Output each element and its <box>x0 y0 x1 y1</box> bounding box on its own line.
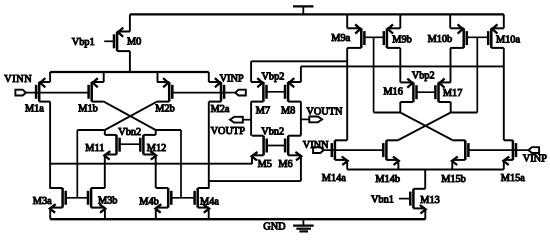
svg-text:VINN: VINN <box>4 74 32 85</box>
svg-text:VINP: VINP <box>523 154 547 165</box>
svg-text:M13: M13 <box>420 195 439 206</box>
svg-text:VINP: VINP <box>220 73 244 84</box>
svg-text:M0: M0 <box>127 37 141 48</box>
svg-text:M2b: M2b <box>155 104 174 115</box>
svg-text:Vbn1: Vbn1 <box>371 195 394 206</box>
svg-text:M4a: M4a <box>200 197 219 208</box>
svg-text:M10b: M10b <box>428 34 453 45</box>
svg-text:M11: M11 <box>85 143 104 154</box>
svg-text:M3a: M3a <box>33 196 52 207</box>
svg-text:M14a: M14a <box>322 173 346 184</box>
svg-text:VOUTN: VOUTN <box>306 107 343 118</box>
svg-text:M10a: M10a <box>496 34 520 45</box>
svg-text:M9a: M9a <box>331 33 350 44</box>
svg-text:M6: M6 <box>278 159 292 170</box>
svg-text:M1a: M1a <box>25 104 44 115</box>
svg-text:VOUTP: VOUTP <box>211 126 246 137</box>
svg-text:M17: M17 <box>443 88 462 99</box>
svg-text:M8: M8 <box>281 106 295 117</box>
svg-text:GND: GND <box>263 221 286 232</box>
svg-text:Vbp2: Vbp2 <box>412 71 435 82</box>
svg-text:M1b: M1b <box>78 104 97 115</box>
svg-text:M3b: M3b <box>98 196 117 207</box>
svg-text:M12: M12 <box>147 143 166 154</box>
svg-text:Vbp2: Vbp2 <box>262 72 285 83</box>
svg-text:M7: M7 <box>256 106 270 117</box>
svg-text:M5: M5 <box>258 159 272 170</box>
svg-text:Vbn2: Vbn2 <box>118 127 141 138</box>
svg-text:M14b: M14b <box>375 174 400 185</box>
svg-text:M16: M16 <box>383 86 402 97</box>
svg-text:Vbn2: Vbn2 <box>261 126 284 137</box>
svg-text:M2a: M2a <box>211 104 230 115</box>
svg-text:M15b: M15b <box>441 174 466 185</box>
svg-text:Vbp1: Vbp1 <box>72 37 95 48</box>
svg-text:M4b: M4b <box>139 197 158 208</box>
svg-text:M15a: M15a <box>501 173 525 184</box>
svg-text:M9b: M9b <box>392 35 411 46</box>
svg-text:VINN: VINN <box>303 140 329 151</box>
